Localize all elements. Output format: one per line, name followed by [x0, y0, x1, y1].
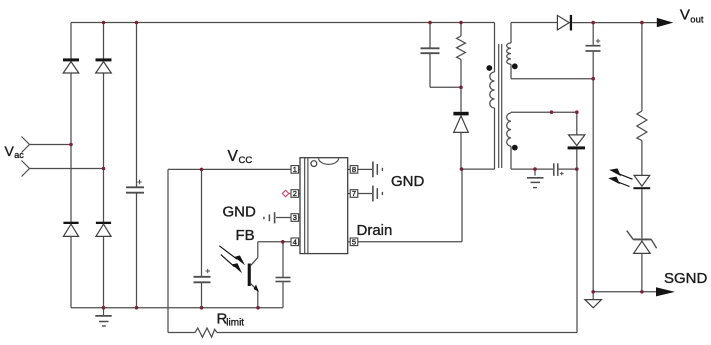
svg-text:5: 5: [352, 237, 356, 246]
svg-text:7: 7: [352, 189, 356, 198]
svg-text:V: V: [228, 148, 239, 165]
svg-text:out: out: [690, 14, 704, 25]
svg-text:GND: GND: [223, 204, 257, 221]
svg-text:V: V: [680, 7, 690, 24]
svg-text:Drain: Drain: [357, 222, 393, 239]
svg-text:ac: ac: [14, 150, 24, 160]
svg-text:FB: FB: [236, 227, 255, 244]
svg-text:4: 4: [293, 237, 297, 246]
svg-text:CC: CC: [239, 155, 253, 166]
svg-text:3: 3: [293, 213, 297, 222]
svg-text:limit: limit: [226, 318, 244, 329]
svg-text:2: 2: [293, 189, 297, 198]
svg-text:1: 1: [293, 165, 297, 174]
svg-text:GND: GND: [391, 173, 425, 190]
svg-text:SGND: SGND: [664, 270, 708, 287]
svg-text:8: 8: [352, 165, 356, 174]
svg-text:V: V: [5, 143, 15, 159]
